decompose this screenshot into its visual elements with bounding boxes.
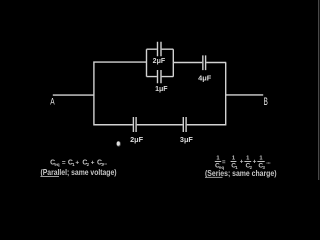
- svg-text:1: 1: [232, 155, 236, 161]
- svg-text:4μF: 4μF: [198, 73, 212, 82]
- svg-text:1: 1: [259, 155, 263, 161]
- svg-text:B: B: [264, 96, 268, 108]
- svg-text:(Parallel; same voltage): (Parallel; same voltage): [41, 168, 117, 177]
- svg-text:+: +: [240, 158, 244, 165]
- svg-text:A: A: [50, 97, 55, 108]
- svg-text:1μF: 1μF: [155, 86, 168, 93]
- svg-text:+: +: [253, 158, 257, 165]
- svg-text:eq: eq: [54, 162, 59, 167]
- svg-text:+: +: [75, 159, 79, 166]
- svg-text:...: ...: [266, 159, 271, 165]
- svg-text:1: 1: [246, 155, 250, 161]
- svg-text:1: 1: [216, 155, 220, 161]
- svg-text:+: +: [91, 159, 95, 166]
- svg-text:=: =: [222, 160, 226, 166]
- svg-text:=: =: [62, 159, 66, 166]
- svg-text:...: ...: [103, 161, 108, 167]
- svg-text:2μF: 2μF: [130, 135, 144, 144]
- svg-text:2μF: 2μF: [153, 58, 166, 65]
- svg-text:(Series; same charge): (Series; same charge): [205, 169, 277, 178]
- svg-text:3μF: 3μF: [180, 135, 194, 144]
- svg-text:2: 2: [87, 162, 90, 167]
